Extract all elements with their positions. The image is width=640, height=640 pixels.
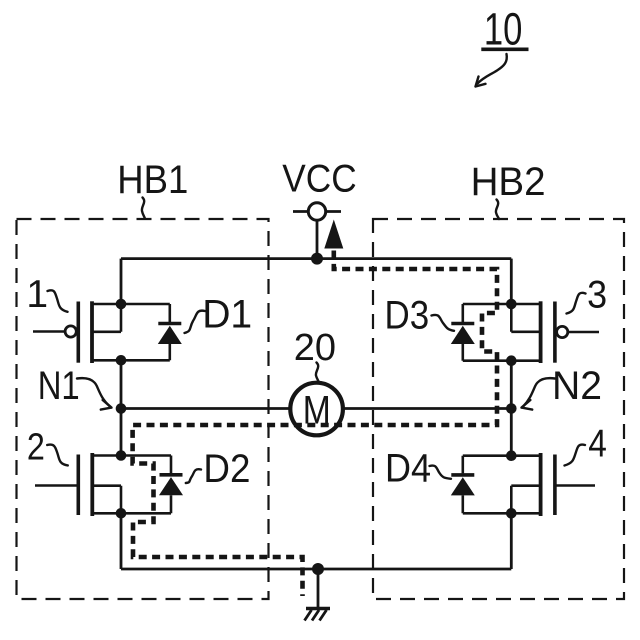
svg-text:10: 10 (484, 4, 523, 55)
svg-text:N1: N1 (38, 364, 80, 408)
svg-text:4: 4 (588, 423, 607, 466)
svg-text:HB2: HB2 (471, 160, 546, 204)
svg-text:D2: D2 (203, 447, 250, 491)
svg-text:3: 3 (587, 274, 607, 317)
svg-text:1: 1 (26, 273, 48, 316)
svg-text:VCC: VCC (282, 157, 356, 200)
svg-text:D4: D4 (385, 446, 431, 490)
svg-text:N2: N2 (552, 364, 602, 408)
svg-text:D1: D1 (202, 293, 252, 337)
svg-text:2: 2 (27, 427, 45, 469)
svg-text:HB1: HB1 (117, 158, 188, 202)
svg-text:M: M (303, 388, 331, 432)
svg-text:20: 20 (294, 327, 336, 369)
svg-text:D3: D3 (385, 294, 430, 338)
